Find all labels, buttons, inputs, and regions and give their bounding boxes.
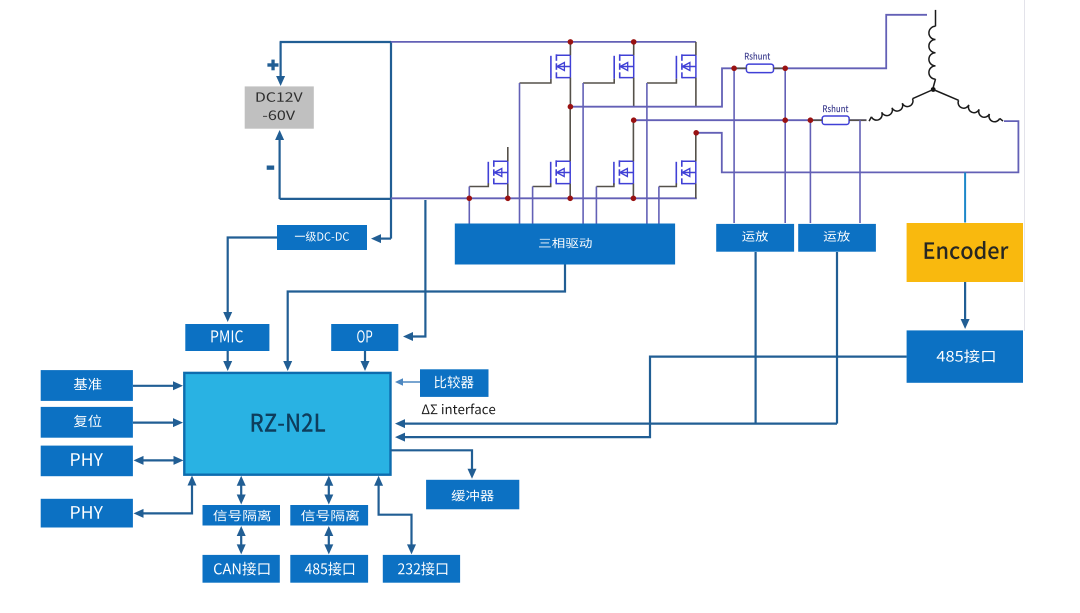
wire phase U [570, 68, 746, 106]
node J3 [568, 104, 574, 110]
wire phase W [696, 121, 1018, 172]
resistor Rshunt2 [822, 116, 849, 125]
wire 信号隔离1 to CAN [240, 531, 242, 549]
wire RZ to buffer [391, 450, 473, 473]
block 一级DC-DC [277, 225, 367, 250]
minus sign [267, 166, 275, 170]
wire phase V [634, 119, 823, 121]
label delta-sigma interface [422, 403, 495, 414]
block PMIC [185, 324, 269, 351]
resistor Rshunt1 [746, 64, 773, 73]
wire phase V lead [849, 119, 866, 121]
node J12 [782, 117, 788, 123]
wire Q1 drain [569, 42, 571, 55]
block 基准 [41, 370, 133, 401]
wire shunt1 leads dark [734, 67, 746, 69]
wire sense2b [859, 120, 861, 223]
block 信号隔离1 [203, 505, 281, 526]
node motor star point [931, 87, 936, 92]
wire motor to encoder [964, 172, 966, 222]
slide edge line [1024, 0, 1026, 331]
transistor Q5 low-side [550, 162, 552, 185]
block 信号隔离2 [290, 505, 368, 526]
node J10 [731, 66, 737, 72]
transistor Q3 high-side [675, 56, 677, 79]
wire supply plus drop [280, 42, 282, 77]
battery DC12V-60V [245, 86, 314, 128]
wire Q6 drain [632, 120, 634, 161]
wire DCDC to PMIC [228, 238, 277, 317]
wire 信号隔离2 to 485 [328, 531, 330, 549]
inductor motor winding A [929, 26, 936, 79]
wire Q4 source [507, 184, 509, 199]
wire Q7 source [695, 184, 697, 199]
wire top dc bus [280, 41, 391, 43]
node J8 [567, 196, 573, 202]
wire opamps to RZ [401, 423, 837, 425]
block OP [331, 324, 398, 351]
wire 基准 to RZ [133, 385, 177, 387]
wire 复位 to RZ [133, 422, 177, 424]
node J4 [631, 117, 637, 123]
inductor motor winding B [913, 90, 934, 99]
wire RZ to 信号隔离1 [240, 481, 242, 499]
block 复位 [41, 407, 133, 438]
transistor Q2 high-side [613, 56, 615, 79]
node J9 [631, 196, 637, 202]
wire dc mid vertical [390, 42, 392, 239]
wire motor top lead [935, 10, 937, 26]
wire V+ rail [391, 41, 696, 43]
block 比较器 [420, 369, 489, 397]
wire Q3 gate lead [647, 79, 677, 83]
wire Q5 gate lead [533, 183, 551, 186]
node J11 [782, 66, 788, 72]
wire Q5 source [569, 184, 571, 199]
block 232接口 [383, 555, 460, 583]
wire supply minus drop [279, 140, 281, 199]
wire Q1 gate lead [520, 79, 551, 83]
block 运放1 [716, 224, 794, 252]
wire Q7 gate lead [659, 183, 676, 186]
wire driver to RZ [288, 265, 565, 366]
wire feed to DC-DC [378, 238, 391, 240]
wire Q5 drain [569, 107, 571, 161]
wire bus to OP [409, 200, 425, 337]
wire Q4 gate lead [469, 183, 488, 186]
node J1 [568, 39, 574, 45]
wire shunt2 leads dark [810, 119, 822, 121]
node J13 [808, 117, 814, 123]
node J7 [505, 196, 511, 202]
block PHY2 [41, 499, 133, 528]
wire Q2 gate lead [583, 79, 614, 83]
wire Q2 drain [633, 42, 635, 55]
wire bottom dc bus [280, 198, 391, 200]
transistor Q7 low-side [675, 162, 677, 185]
block Encoder [907, 223, 1023, 282]
block RZ-N2L [184, 373, 390, 475]
wire PHY1 to RZ [139, 459, 178, 461]
block 运放2 [798, 224, 876, 252]
block CAN接口 [203, 555, 280, 583]
wire opamp1 out [754, 252, 756, 424]
wire 485 to RZ [401, 357, 907, 438]
wire Q4 drain stub [507, 147, 509, 161]
wire comparator to RZ [401, 381, 420, 383]
block 485 interface right [907, 330, 1023, 382]
node J5 [693, 130, 699, 136]
wire Q1 source [569, 78, 571, 108]
transistor Q4 low-side [487, 162, 489, 185]
plus sign [271, 60, 274, 71]
wire RZ to 信号隔离2 [328, 481, 330, 499]
wire RZ to 232 [379, 481, 412, 548]
block 三相驱动 [455, 224, 675, 265]
node J6 [467, 196, 473, 202]
wire encoder to 485 [964, 282, 966, 323]
inductor motor winding C [933, 90, 958, 101]
transistor Q6 low-side [613, 162, 615, 185]
wire sense2a [809, 120, 811, 223]
wire sense1b [784, 68, 786, 223]
wire sense1a [733, 68, 735, 223]
block 缓冲器 [426, 480, 519, 510]
wire Q7 drain [695, 133, 697, 162]
transistor Q1 high-side [550, 56, 552, 79]
wire Q3 source [695, 78, 697, 108]
node J2 [631, 39, 637, 45]
block PHY1 [41, 446, 133, 477]
wire PMIC to RZ [227, 351, 229, 365]
wire V- rail [391, 197, 697, 199]
block 485接口 bottom [290, 555, 368, 583]
wire Q3 drain [695, 42, 697, 55]
wire OP to RZ [364, 351, 366, 365]
wire Q6 gate lead [596, 183, 614, 186]
wire opamp2 out [836, 252, 838, 424]
wire Q2 source [633, 78, 635, 108]
wire phase U to motor [774, 15, 928, 69]
wire Q6 source [632, 184, 634, 199]
wire PHY2 to RZ [139, 480, 192, 513]
